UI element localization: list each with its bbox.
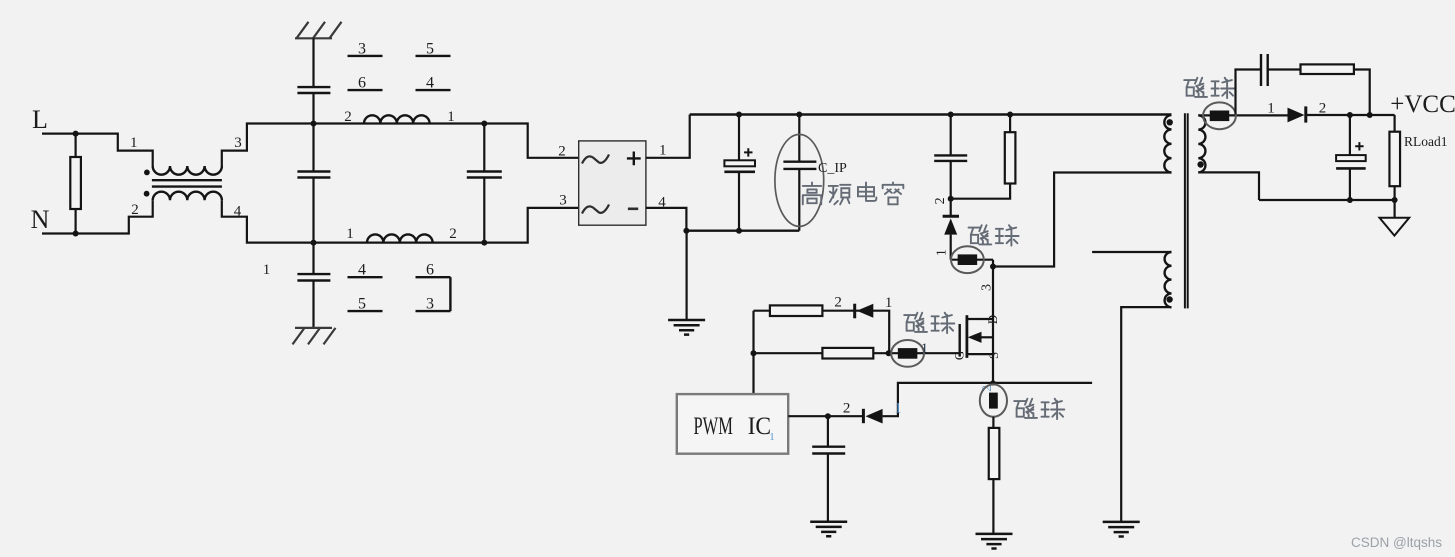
svg-text:2: 2 [933,197,948,204]
svg-text:C_IP: C_IP [818,161,847,176]
svg-text:D: D [985,315,1000,324]
svg-text:1: 1 [934,249,949,256]
svg-text:6: 6 [426,262,434,279]
svg-text:S: S [986,352,1001,359]
svg-text:1: 1 [885,295,893,311]
svg-text:+VCC: +VCC [1390,91,1455,118]
svg-text:PWM: PWM [694,413,733,440]
svg-text:L: L [32,105,48,134]
svg-text:2: 2 [449,226,457,242]
svg-text:CSDN @ltqshs: CSDN @ltqshs [1351,535,1442,550]
svg-text:1: 1 [769,431,775,443]
svg-text:1: 1 [894,401,902,417]
svg-text:3: 3 [980,284,995,291]
svg-text:4: 4 [426,75,434,92]
svg-text:RLoad1: RLoad1 [1404,134,1448,149]
svg-text:1: 1 [921,342,928,357]
svg-text:5: 5 [426,40,434,57]
svg-text:5: 5 [358,296,366,313]
svg-text:IC: IC [748,413,772,440]
svg-text:4: 4 [358,262,366,279]
svg-text:1: 1 [263,262,271,278]
svg-text:3: 3 [426,296,434,313]
svg-text:3: 3 [559,193,567,209]
svg-text:2: 2 [834,295,842,311]
svg-text:6: 6 [358,75,366,92]
svg-text:2: 2 [558,144,566,160]
svg-text:3: 3 [358,40,366,57]
svg-text:2: 2 [344,109,352,125]
svg-text:N: N [31,205,50,234]
svg-text:3: 3 [234,135,242,151]
svg-text:2: 2 [131,202,139,218]
svg-text:1: 1 [659,143,667,159]
svg-text:1: 1 [346,226,354,242]
svg-text:1: 1 [1267,101,1275,117]
svg-text:1: 1 [447,109,455,125]
svg-text:1: 1 [130,135,138,151]
svg-text:2: 2 [843,401,851,417]
